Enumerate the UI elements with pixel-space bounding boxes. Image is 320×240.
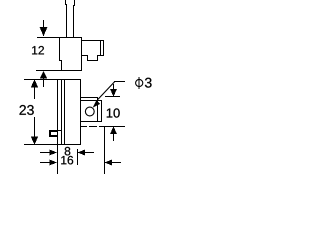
flag tab bottom edge	[87, 60, 98, 61]
label phi3 symbol bar	[139, 77, 140, 89]
upper body left edge lower	[61, 60, 62, 71]
dim16 right arrowhead	[105, 160, 112, 166]
upper body bottom edge with dim12 extension	[36, 70, 82, 71]
lower body left edge	[57, 79, 58, 145]
flag bottom right edge	[97, 55, 104, 56]
dim8 right stem	[84, 152, 94, 153]
label 12	[32, 46, 44, 54]
left tab top edge with slot bridge	[49, 130, 62, 131]
extension line E3	[104, 127, 105, 174]
dim10 bottom extension segment a	[81, 126, 87, 127]
dim12 bottom stem	[43, 78, 44, 87]
dim8 right arrowhead	[78, 150, 85, 156]
flag right outer edge	[103, 40, 104, 56]
lower body right edge	[80, 79, 81, 145]
pin lead left jog	[65, 4, 67, 5]
dim12 top stem	[43, 20, 44, 28]
dim16 left arrowhead	[50, 160, 57, 166]
label 10	[107, 108, 120, 117]
extension line E2	[77, 149, 78, 165]
plate top line1	[81, 97, 98, 98]
pin lead right line upper	[74, 0, 75, 6]
mechanical dimension drawing of component side view	[0, 0, 166, 186]
dim23 bottom arrowhead	[31, 137, 38, 145]
dim16 left stem	[40, 162, 50, 163]
lower body top edge with dim23 extension	[24, 79, 81, 80]
dim23 upper stem	[34, 86, 35, 99]
dim8 left stem	[40, 152, 50, 153]
upper body right edge	[81, 37, 82, 71]
dim23 top arrowhead	[31, 80, 38, 88]
extension line E1	[57, 145, 58, 174]
left tab bottom edge	[49, 135, 58, 137]
dim16 right stem	[111, 162, 121, 163]
plate bottom edge	[81, 121, 102, 122]
upper body left edge	[59, 37, 60, 61]
label phi3 digit	[145, 78, 152, 88]
lower body bottom edge with dim23 extension	[24, 144, 81, 145]
dim10 top arrowhead	[110, 89, 117, 97]
dim10 bottom arrowhead	[110, 127, 117, 135]
pin lead right jog	[73, 5, 75, 6]
dim10 bottom stem	[113, 134, 114, 141]
dim10 top extension line	[105, 96, 120, 97]
upper body top edge with dim12 extension	[37, 37, 82, 38]
flag top edge	[82, 40, 104, 41]
dim10 top stem	[113, 84, 114, 89]
dim12 top arrowhead	[40, 27, 48, 36]
plate right inner edge	[97, 97, 98, 122]
dim12 bottom arrowhead	[40, 71, 48, 79]
pin lead right line lower	[73, 5, 74, 38]
label 23	[20, 105, 34, 115]
upper body left jog	[59, 60, 62, 61]
dim10 bottom extension segment b	[89, 126, 97, 127]
hole circle	[85, 107, 94, 116]
left tab left edge	[49, 130, 51, 137]
label 16	[61, 156, 73, 164]
dim8 left arrowhead	[50, 150, 57, 156]
flag tab right edge	[97, 55, 98, 61]
pin lead left line upper	[65, 0, 66, 5]
dim23 lower stem	[34, 117, 35, 139]
plate top line2	[81, 100, 102, 101]
label phi3 symbol circle	[136, 79, 143, 86]
lower body inner line 2	[64, 79, 65, 145]
plate right outer edge	[101, 100, 102, 122]
label 8	[65, 147, 71, 155]
pin lead left line lower	[66, 4, 67, 38]
flag tab left edge	[87, 55, 88, 61]
flag right inner edge	[100, 40, 101, 56]
lower body inner line 1	[61, 79, 62, 145]
left tab top edge inner	[49, 131, 57, 132]
flag bottom left edge	[82, 55, 88, 56]
phi3 leader diagonal	[98, 82, 115, 100]
dim10 bottom extension segment c	[99, 126, 125, 127]
phi3 leader arrowhead	[93, 100, 100, 107]
phi3 leader horizontal	[114, 81, 125, 82]
